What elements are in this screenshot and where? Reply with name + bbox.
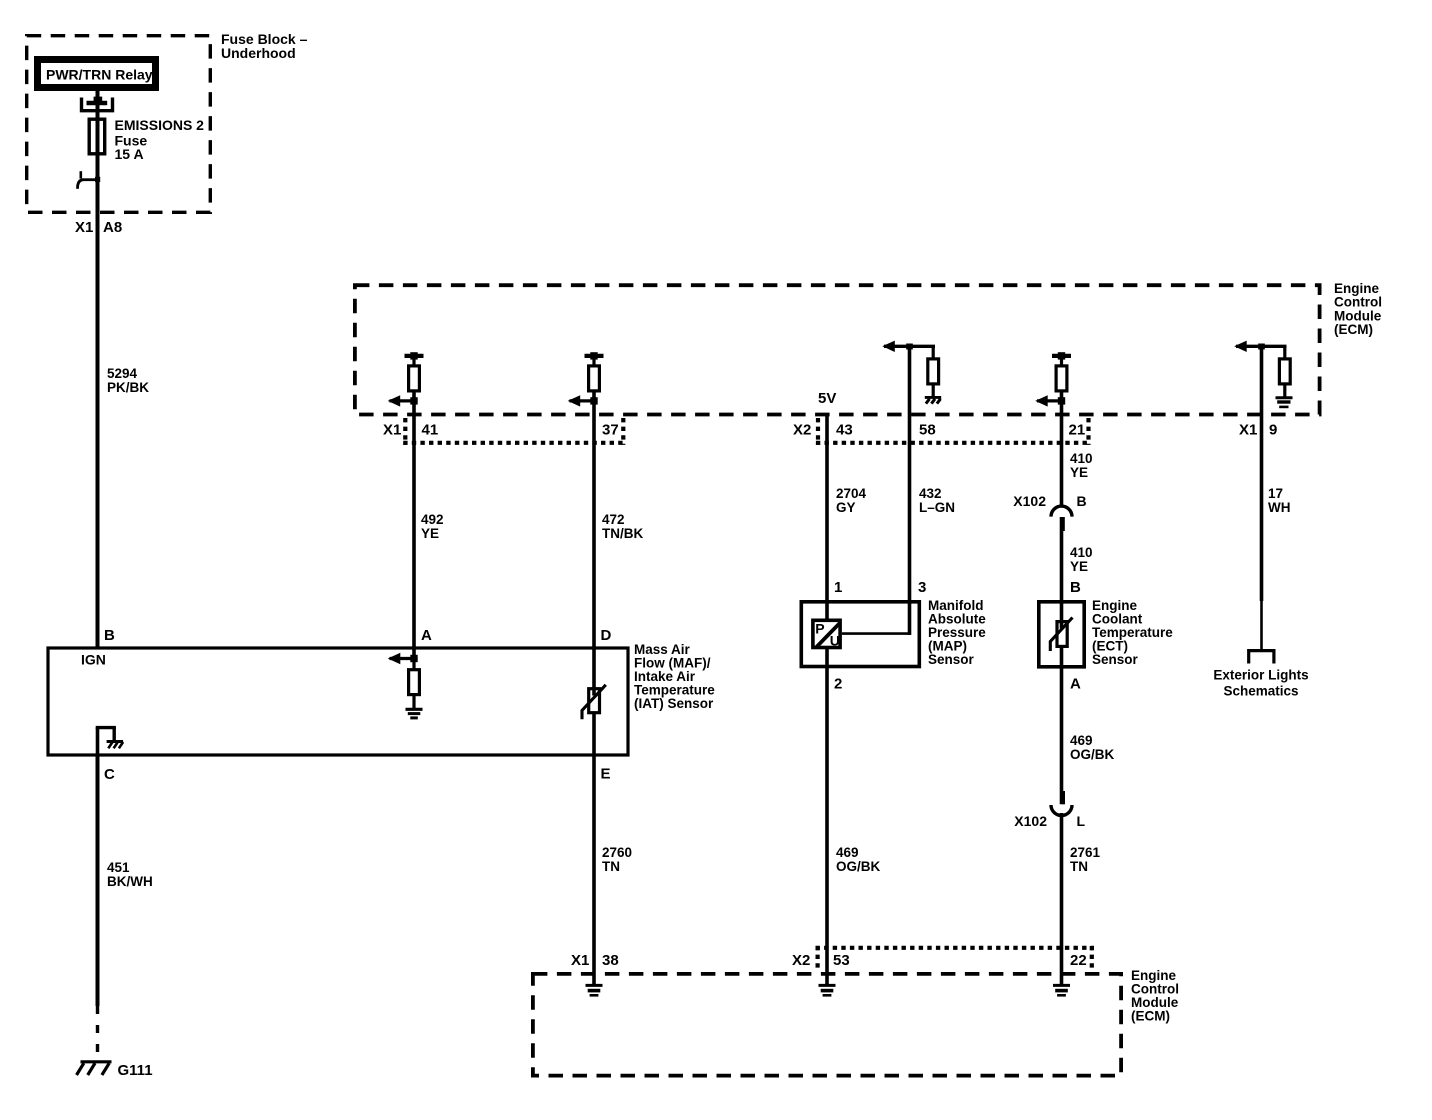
svg-text:492: 492 — [421, 512, 444, 527]
svg-text:BK/WH: BK/WH — [107, 874, 153, 889]
wire 410 YE from ECM pin 21 to connector X102 pin B — [1060, 391, 1064, 507]
thermistor IAT in MAF sensor at pin D — [582, 685, 606, 720]
svg-text:469: 469 — [836, 845, 859, 860]
fuse EMISSIONS 2 15 A — [89, 119, 105, 154]
earth ground in ECM at pin 38 — [586, 985, 603, 995]
svg-text:2760: 2760 — [602, 845, 632, 860]
label G111 — [118, 1062, 153, 1079]
svg-text:469: 469 — [1070, 733, 1093, 748]
svg-text:OG/BK: OG/BK — [836, 859, 881, 874]
label 472 TN/BK — [602, 512, 643, 541]
relay terminal connector below PWR/TRN Relay — [82, 97, 113, 111]
pin label 3 — [918, 579, 926, 596]
label connector X102 B — [1013, 493, 1086, 509]
wire 472 TN/BK from ECM pin 37 to MAF/IAT pin D, and 2760 TN from pin E to ECM pin 38 — [592, 391, 596, 985]
svg-text:41: 41 — [422, 422, 439, 439]
pin label X2 43 — [793, 422, 853, 439]
pin label B — [104, 627, 115, 644]
svg-text:5V: 5V — [818, 390, 836, 407]
svg-text:1: 1 — [834, 579, 842, 596]
label Engine Control Module (ECM) bottom — [1131, 968, 1179, 1024]
svg-text:Sensor: Sensor — [1092, 652, 1139, 667]
ECM top dashed box — [355, 285, 1320, 414]
svg-text:X2: X2 — [792, 952, 810, 969]
svg-text:43: 43 — [836, 422, 853, 439]
svg-text:GY: GY — [836, 500, 856, 515]
svg-text:A: A — [421, 627, 432, 644]
svg-text:X2: X2 — [793, 422, 811, 439]
wire 492 YE from ECM pin 41 to MAF/IAT pin A — [412, 391, 416, 659]
ECT sensor box — [1039, 602, 1084, 667]
svg-text:L: L — [1077, 813, 1086, 829]
wire 432 L-GN from ECM pin 58 to MAP sensor pin 3 — [842, 346, 910, 635]
pin label X1 41 — [383, 422, 438, 439]
svg-text:WH: WH — [1268, 500, 1291, 515]
pin label 22 — [1070, 952, 1087, 969]
svg-text:410: 410 — [1070, 451, 1093, 466]
svg-text:Underhood: Underhood — [221, 45, 296, 61]
wire 410 YE from X102 to ECT pin B, 469 OG/BK from ECT pin A to X102 pin L — [1062, 517, 1066, 804]
resistor in ECM near pin 58 — [928, 346, 939, 396]
svg-text:L–GN: L–GN — [919, 500, 955, 515]
svg-text:Exterior Lights: Exterior Lights — [1213, 667, 1308, 682]
pin label A (MAF) — [421, 627, 432, 644]
connector X102 pin B — [1051, 506, 1072, 517]
svg-text:53: 53 — [833, 952, 850, 969]
fuse block underhood dashed box — [27, 36, 211, 213]
label Manifold Absolute Pressure (MAP) Sensor — [928, 598, 986, 667]
label Engine Control Module (ECM) top — [1334, 281, 1382, 337]
connector rail X1 41-37 dotted — [403, 418, 625, 445]
label 451 BK/WH — [107, 860, 153, 889]
svg-text:(ECM): (ECM) — [1334, 322, 1373, 337]
svg-text:C: C — [104, 766, 115, 783]
arrow at ECM pin 9 — [1234, 341, 1286, 352]
svg-text:3: 3 — [918, 579, 926, 596]
label EMISSIONS 2 Fuse 15 A — [115, 117, 205, 162]
label Fuse Block - Underhood — [221, 31, 308, 61]
pin label 37 — [602, 422, 619, 439]
svg-text:Schematics: Schematics — [1223, 683, 1298, 698]
svg-text:15 A: 15 A — [115, 146, 144, 162]
resistor in ECM at pin 21 — [1052, 352, 1071, 391]
pin label 21 — [1069, 422, 1086, 439]
svg-text:PK/BK: PK/BK — [107, 380, 149, 395]
MAP sensor box — [801, 602, 919, 667]
ground G111 — [77, 1062, 112, 1075]
svg-text:G111: G111 — [118, 1062, 153, 1079]
svg-text:58: 58 — [919, 422, 936, 439]
resistor in ECM near pin 9 — [1279, 346, 1290, 396]
earth ground in ECM at pin 53 — [819, 985, 836, 995]
svg-text:OG/BK: OG/BK — [1070, 747, 1115, 762]
label 469 OG/BK (ECT side) — [1070, 733, 1115, 762]
pin label 2 — [834, 675, 842, 692]
svg-text:YE: YE — [421, 526, 439, 541]
pin label B (ECT) — [1070, 579, 1081, 596]
svg-text:410: 410 — [1070, 545, 1093, 560]
label 5V — [818, 390, 836, 407]
thermistor ECT in ECT sensor — [1050, 618, 1072, 652]
connector rail X2 43-21 dotted — [816, 418, 1091, 445]
relay PWR/TRN Relay — [38, 60, 156, 88]
svg-text:Sensor: Sensor — [928, 652, 975, 667]
svg-text:2761: 2761 — [1070, 845, 1101, 860]
svg-text:PWR/TRN Relay: PWR/TRN Relay — [46, 67, 153, 83]
label Exterior Lights Schematics — [1213, 667, 1308, 698]
svg-text:451: 451 — [107, 860, 130, 875]
ECM bottom dashed box — [533, 974, 1121, 1076]
pressure transducer symbol in MAP sensor — [813, 620, 840, 648]
svg-text:E: E — [601, 766, 611, 783]
label connector X102 L — [1014, 813, 1085, 829]
svg-text:A: A — [1070, 675, 1081, 692]
resistor in MAF/IAT sensor at pin A — [409, 659, 420, 709]
svg-text:2704: 2704 — [836, 486, 867, 501]
svg-text:D: D — [601, 627, 612, 644]
pin label E — [601, 766, 611, 783]
svg-text:X1: X1 — [75, 219, 93, 236]
svg-text:TN: TN — [1070, 859, 1088, 874]
off-page connector to Exterior Lights Schematics — [1249, 651, 1274, 664]
pin label A (ECT) — [1070, 675, 1081, 692]
svg-text:38: 38 — [602, 952, 619, 969]
label 17 WH — [1268, 486, 1291, 515]
arrow at MAF/IAT pin A — [388, 653, 418, 664]
MAF/IAT sensor box with IGN section — [48, 648, 628, 755]
resistor in ECM at pin 37 — [585, 352, 604, 391]
arrow at ECM pin 41 — [388, 395, 418, 406]
pin label C — [104, 766, 115, 783]
svg-text:X102: X102 — [1014, 813, 1047, 829]
svg-text:(ECM): (ECM) — [1131, 1008, 1170, 1023]
label 2760 TN — [602, 845, 632, 874]
svg-text:B: B — [1077, 493, 1087, 509]
label 432 L-GN — [919, 486, 955, 515]
label IGN — [81, 652, 106, 668]
svg-text:EMISSIONS 2: EMISSIONS 2 — [115, 117, 205, 133]
svg-text:17: 17 — [1268, 486, 1283, 501]
wire 2761 TN from X102 pin L to ECM pin 22 — [1060, 813, 1064, 985]
svg-text:YE: YE — [1070, 465, 1088, 480]
connector rail X2 53-22 dotted — [816, 946, 1094, 972]
label 492 YE — [421, 512, 444, 541]
svg-text:X1: X1 — [383, 422, 401, 439]
svg-text:A8: A8 — [103, 219, 122, 236]
connector X102 pin L — [1051, 805, 1072, 816]
wire 5294 PK/BK from fuse block to IGN pin B — [96, 91, 100, 648]
svg-text:472: 472 — [602, 512, 625, 527]
chassis ground in ECM near pin 58 — [925, 397, 941, 403]
label 410 YE upper — [1070, 451, 1093, 480]
pin label X1 38 — [571, 952, 619, 969]
label 2761 TN — [1070, 845, 1101, 874]
svg-text:P: P — [815, 621, 824, 637]
pin label D — [601, 627, 612, 644]
svg-text:2: 2 — [834, 675, 842, 692]
label Engine Coolant Temperature (ECT) Sensor — [1092, 598, 1173, 667]
svg-text:22: 22 — [1070, 952, 1087, 969]
svg-text:YE: YE — [1070, 559, 1088, 574]
svg-text:5294: 5294 — [107, 366, 138, 381]
pin label 58 — [919, 422, 936, 439]
label Mass Air Flow (MAF)/Intake Air Temperature (IAT) Sensor — [634, 642, 715, 711]
svg-text:B: B — [1070, 579, 1081, 596]
arrow at ECM pin 21 — [1035, 395, 1065, 406]
svg-text:9: 9 — [1269, 422, 1277, 439]
resistor in ECM at pin 41 — [405, 352, 424, 391]
svg-text:432: 432 — [919, 486, 942, 501]
label 5294 PK/BK — [107, 366, 149, 395]
label 2704 GY — [836, 486, 867, 515]
pin label X1 9 — [1239, 422, 1277, 439]
svg-text:IGN: IGN — [81, 652, 106, 668]
svg-text:U: U — [830, 632, 840, 648]
svg-text:B: B — [104, 627, 115, 644]
arrow at ECM pin 58 — [882, 341, 935, 352]
wire 2704 GY from ECM pin 43 through MAP sensor, 469 OG/BK to ECM pin 53 — [825, 416, 829, 985]
earth ground in MAF/IAT sensor — [406, 709, 423, 718]
wire 17 WH from ECM pin 9 to Exterior Lights — [1260, 346, 1264, 650]
earth ground in ECM near pin 9 — [1276, 398, 1293, 407]
svg-text:TN/BK: TN/BK — [602, 526, 643, 541]
label 469 OG/BK (MAP side) — [836, 845, 881, 874]
pin label X1 A8 — [75, 219, 122, 236]
svg-text:TN: TN — [602, 859, 620, 874]
svg-text:(IAT) Sensor: (IAT) Sensor — [634, 696, 714, 711]
pin label X2 53 — [792, 952, 850, 969]
chassis ground in MAF/IAT sensor at pin C — [96, 728, 123, 755]
label 410 YE lower — [1070, 545, 1093, 574]
svg-text:X1: X1 — [1239, 422, 1257, 439]
pin label 1 — [834, 579, 842, 596]
earth ground in ECM at pin 22 — [1053, 985, 1070, 995]
svg-text:X1: X1 — [571, 952, 589, 969]
switch contact in fuse block — [78, 171, 101, 189]
arrow at ECM pin 37 — [568, 395, 598, 406]
svg-text:21: 21 — [1069, 422, 1086, 439]
wire 451 BK/WH from IGN pin C toward G111 — [96, 755, 100, 1062]
svg-text:X102: X102 — [1013, 493, 1046, 509]
svg-text:37: 37 — [602, 422, 619, 439]
